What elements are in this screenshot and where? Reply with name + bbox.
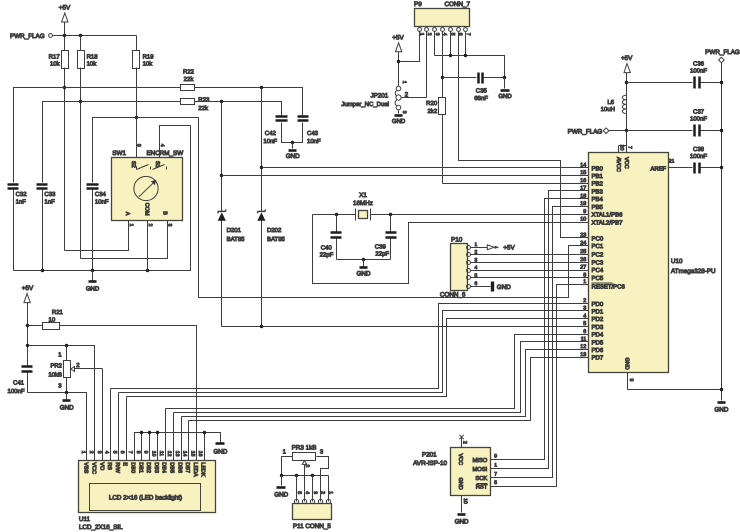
svg-text:CONN_6: CONN_6 xyxy=(440,292,466,299)
node C38 right xyxy=(720,166,723,169)
svg-text:2: 2 xyxy=(304,465,310,468)
svg-text:L6: L6 xyxy=(607,99,614,106)
svg-text:26: 26 xyxy=(580,257,586,263)
svg-text:PC0: PC0 xyxy=(592,235,604,242)
SW1 pin 4 stub to COM/GND net xyxy=(159,126,191,158)
svg-text:PR2: PR2 xyxy=(50,363,62,370)
svg-text:7: 7 xyxy=(127,451,133,454)
node D201 / PB1 row xyxy=(220,174,223,177)
node P11 pin5 gnd xyxy=(295,474,298,477)
MCU AREF pin 21 xyxy=(651,159,693,173)
ground at PR3 xyxy=(274,476,288,499)
svg-text:GND: GND xyxy=(213,448,227,455)
node P9 pin4 / R20 / C35 xyxy=(441,76,444,79)
svg-text:100nF: 100nF xyxy=(690,153,707,160)
capacitor C33 xyxy=(37,185,57,271)
node C36 right / PWR_FLAG xyxy=(720,81,723,84)
svg-text:GND: GND xyxy=(357,271,371,278)
svg-text:A: A xyxy=(124,212,130,216)
svg-text:10kB: 10kB xyxy=(48,371,62,378)
svg-text:23: 23 xyxy=(580,233,586,239)
node C42/C43 join xyxy=(291,141,294,144)
svg-text:6: 6 xyxy=(119,451,125,454)
svg-text:PD4: PD4 xyxy=(592,332,604,339)
svg-text:RST: RST xyxy=(476,484,488,491)
SW1 pin 3 (B) wire to R18 xyxy=(81,221,173,259)
svg-text:C40: C40 xyxy=(321,244,333,251)
svg-text:9: 9 xyxy=(143,451,149,454)
svg-text:10: 10 xyxy=(580,217,586,223)
node pin5 xyxy=(449,54,452,57)
svg-text:PB5: PB5 xyxy=(592,204,604,211)
wire P11 pin3 up xyxy=(312,476,314,502)
resistor R20 2k2 xyxy=(426,98,445,184)
node LCD DB3 gnd xyxy=(156,431,159,434)
svg-text:VO: VO xyxy=(98,462,104,471)
svg-text:PC3: PC3 xyxy=(592,259,604,266)
MCU left pin names xyxy=(592,165,626,361)
PWR_FLAG top-right xyxy=(705,49,740,400)
resistor R23 xyxy=(181,96,210,112)
wire XTAL1 row xyxy=(313,214,356,216)
svg-text:GND: GND xyxy=(455,519,469,526)
svg-text:5: 5 xyxy=(296,491,302,494)
wire R20 to PB2 row xyxy=(443,183,589,185)
svg-text:4: 4 xyxy=(583,313,586,319)
svg-text:AVCC: AVCC xyxy=(615,157,621,172)
node crystal gnd xyxy=(362,258,365,261)
capacitor C42 xyxy=(263,117,292,146)
svg-text:9: 9 xyxy=(494,454,497,460)
MCU VCC/AVCC pins 20/7 xyxy=(615,145,632,172)
svg-text:17: 17 xyxy=(580,186,586,192)
ground below C42/C43 xyxy=(286,143,300,161)
jumper JP201 Jumper_NC_Dual xyxy=(341,81,426,125)
svg-text:X1: X1 xyxy=(359,192,367,199)
PWR_FLAG top-left xyxy=(10,33,52,40)
wire net y=87.3 left + C32 drop xyxy=(14,88,181,183)
svg-text:10: 10 xyxy=(462,498,468,504)
svg-text:XTAL1/PB6: XTAL1/PB6 xyxy=(592,212,624,219)
svg-text:4: 4 xyxy=(304,491,310,494)
svg-text:R/W: R/W xyxy=(114,462,120,474)
capacitor C38 100nF xyxy=(690,146,722,174)
LCD data pins 11-14 stubs xyxy=(165,409,167,461)
wire P9 pin3 down xyxy=(434,32,436,56)
wire ISP MISO to PB4 xyxy=(491,199,589,460)
svg-text:R18: R18 xyxy=(87,54,99,61)
LCD pin numbers xyxy=(80,451,203,457)
svg-text:GND: GND xyxy=(497,284,511,291)
node +5V / C36 row xyxy=(625,81,628,84)
svg-text:VCC: VCC xyxy=(91,462,97,474)
wire P9 pin6 to PC0 xyxy=(459,32,589,238)
svg-text:GND: GND xyxy=(60,405,74,412)
wire P9 pin2 to JP201 xyxy=(426,32,428,98)
power +5V at JP201 xyxy=(392,34,404,86)
svg-text:+5V: +5V xyxy=(392,34,404,41)
svg-text:BAT85: BAT85 xyxy=(227,236,246,243)
svg-text:RS: RS xyxy=(106,462,112,470)
node D202 top xyxy=(260,86,263,89)
svg-text:B: B xyxy=(162,211,168,215)
node C40 top xyxy=(335,213,338,216)
svg-text:P201: P201 xyxy=(422,452,437,459)
svg-text:2: 2 xyxy=(88,451,94,454)
svg-text:DB3: DB3 xyxy=(153,462,159,473)
wire PR2 wiper to LCD VO xyxy=(102,369,104,461)
svg-text:PC5: PC5 xyxy=(592,275,604,282)
svg-text:1: 1 xyxy=(328,491,334,494)
connector P11 CONN_5 xyxy=(293,491,334,530)
svg-text:4: 4 xyxy=(159,144,165,147)
resistor R21 10 xyxy=(28,309,64,330)
svg-text:3: 3 xyxy=(167,224,173,227)
wire C40/C39 gnd row xyxy=(337,259,391,261)
resistor R22 xyxy=(181,69,195,91)
power +5V lower-left xyxy=(22,285,34,366)
MCU left pin numbers xyxy=(580,163,586,358)
diode D202 BAT85 xyxy=(257,88,285,327)
svg-text:PD1: PD1 xyxy=(592,309,604,316)
svg-text:MISO: MISO xyxy=(472,457,487,464)
svg-text:PB0: PB0 xyxy=(592,165,604,172)
svg-text:13: 13 xyxy=(580,352,586,358)
svg-text:C38: C38 xyxy=(693,146,705,153)
svg-text:R23: R23 xyxy=(198,96,210,103)
svg-text:P11 CONN_5: P11 CONN_5 xyxy=(293,523,332,530)
wire PD3 row from diode anodes xyxy=(222,326,589,328)
svg-text:C36: C36 xyxy=(693,61,705,68)
resistor R18 xyxy=(78,36,99,259)
svg-text:C35: C35 xyxy=(476,88,488,95)
svg-text:SW1: SW1 xyxy=(112,150,126,157)
svg-text:SCK: SCK xyxy=(475,475,487,482)
svg-text:PWR_FLAG: PWR_FLAG xyxy=(705,49,740,56)
svg-text:22pF: 22pF xyxy=(320,251,334,258)
svg-text:12: 12 xyxy=(166,451,172,457)
ground at C35 xyxy=(498,78,512,100)
svg-text:100nF: 100nF xyxy=(690,116,707,123)
wire P9 pin1 to +5V xyxy=(399,32,420,62)
svg-text:7: 7 xyxy=(494,471,497,477)
connector P10 CONN_6 xyxy=(440,237,478,299)
svg-text:PC1: PC1 xyxy=(592,243,604,250)
svg-text:16MHz: 16MHz xyxy=(353,200,373,207)
svg-text:10nF: 10nF xyxy=(307,138,321,145)
wire PR3/P11 gnd row xyxy=(282,475,329,477)
wire LCD DB4 to PD4 xyxy=(166,335,589,409)
wire P11 pin5 up xyxy=(296,476,298,502)
svg-text:100nF: 100nF xyxy=(690,68,707,75)
wire +5V to PR2 pin1 and LCD VCC xyxy=(28,346,95,461)
svg-text:2: 2 xyxy=(461,441,467,444)
svg-text:LEDA: LEDA xyxy=(192,462,198,477)
node LCD DB1 gnd xyxy=(140,431,143,434)
svg-text:22k: 22k xyxy=(184,76,195,83)
svg-text:PD3: PD3 xyxy=(592,324,604,331)
svg-text:25: 25 xyxy=(580,249,586,255)
connector P9 CONN_7 xyxy=(414,1,471,36)
svg-text:PB3: PB3 xyxy=(592,188,604,195)
svg-text:1nF: 1nF xyxy=(16,198,27,205)
capacitor C43 xyxy=(293,117,322,146)
ground at P10 pin6 xyxy=(471,282,512,292)
svg-text:PC4: PC4 xyxy=(592,267,604,274)
svg-text:GND: GND xyxy=(714,406,728,413)
svg-text:VSS: VSS xyxy=(83,462,89,473)
svg-text:PB4: PB4 xyxy=(592,196,604,203)
svg-text:13: 13 xyxy=(174,451,180,457)
svg-text:68nF: 68nF xyxy=(474,95,488,102)
svg-text:5: 5 xyxy=(494,480,497,486)
svg-text:8: 8 xyxy=(135,451,141,454)
node +5V / P9 pin1 xyxy=(397,60,400,63)
svg-text:R22: R22 xyxy=(183,69,195,76)
node PR2 pin1 xyxy=(65,344,68,347)
svg-text:AREF: AREF xyxy=(651,166,667,172)
svg-text:15: 15 xyxy=(580,170,586,176)
svg-text:PB1: PB1 xyxy=(592,173,604,180)
capacitor C36 100nF xyxy=(627,61,722,89)
svg-text:100nF: 100nF xyxy=(7,388,24,395)
inductor L6 10uH xyxy=(601,95,627,130)
SW1 pin 6 stub xyxy=(136,118,142,158)
ground below C34 xyxy=(86,271,100,293)
node R17/wire y87 xyxy=(63,86,66,89)
svg-text:PR3 1kB: PR3 1kB xyxy=(292,445,317,452)
svg-text:10k: 10k xyxy=(50,61,61,68)
node PR3 pin1 gnd xyxy=(280,474,283,477)
svg-text:C37: C37 xyxy=(693,109,705,116)
svg-text:1: 1 xyxy=(494,463,497,469)
SW1 pin 2 (COM) wire down xyxy=(147,221,153,271)
svg-text:16: 16 xyxy=(197,451,203,457)
svg-text:PD7: PD7 xyxy=(592,355,604,362)
LCD module U11 xyxy=(79,461,216,532)
svg-text:ATmega328-PU: ATmega328-PU xyxy=(671,268,716,275)
op MCU U10 ATmega328-PU xyxy=(589,153,717,373)
ground at crystal xyxy=(357,260,371,278)
wire P10 pin1 to +5V arrow xyxy=(471,245,516,252)
svg-text:P9: P9 xyxy=(414,1,422,8)
ground below PR2 xyxy=(60,393,74,412)
svg-text:2: 2 xyxy=(320,491,326,494)
capacitor C34 xyxy=(87,185,109,271)
wire P10 pin4 to PC4 xyxy=(471,270,589,272)
svg-text:3: 3 xyxy=(312,491,318,494)
svg-text:XTAL2/PB7: XTAL2/PB7 xyxy=(592,220,624,227)
svg-text:24: 24 xyxy=(580,240,586,246)
wire net y=117.5 + C34 drop xyxy=(93,118,199,183)
svg-text:GND: GND xyxy=(86,285,100,292)
svg-text:PWR_FLAG: PWR_FLAG xyxy=(10,33,45,40)
node D202 anode / PD3 row xyxy=(260,325,263,328)
svg-text:22pF: 22pF xyxy=(375,250,389,257)
svg-text:RESET/PC6: RESET/PC6 xyxy=(592,284,626,291)
power +5V top-right xyxy=(621,55,633,95)
node R18/wire y102 xyxy=(79,100,82,103)
wire ISP MOSI to PB3 xyxy=(491,191,589,469)
svg-text:8: 8 xyxy=(583,272,586,278)
svg-text:GND: GND xyxy=(498,93,512,100)
node gnd row right xyxy=(720,388,723,391)
svg-text:PD0: PD0 xyxy=(592,301,604,308)
wire P10 pin5 to PC5 xyxy=(471,277,589,279)
capacitor C39 22pF xyxy=(375,215,397,260)
svg-text:2: 2 xyxy=(426,33,432,36)
wire encoder switch net to PC1 xyxy=(199,118,589,298)
svg-text:20: 20 xyxy=(618,145,624,151)
wire LCD E to PD2 xyxy=(127,319,589,397)
svg-text:5: 5 xyxy=(475,273,478,279)
svg-text:U11: U11 xyxy=(79,516,91,523)
power +5V top-left xyxy=(59,5,71,36)
svg-text:10uH: 10uH xyxy=(601,106,615,113)
wire LCD R/W to PD1 xyxy=(119,311,589,393)
svg-text:1: 1 xyxy=(583,279,586,285)
svg-text:VCC: VCC xyxy=(623,157,629,169)
svg-text:PD2: PD2 xyxy=(592,316,604,323)
svg-text:7: 7 xyxy=(626,146,632,149)
PWR_FLAG mid-left of L6 xyxy=(568,128,627,135)
svg-text:10: 10 xyxy=(150,451,156,457)
svg-text:U10: U10 xyxy=(671,258,683,265)
capacitor C40 22pF xyxy=(320,215,342,260)
svg-text:COM: COM xyxy=(144,203,150,216)
svg-text:14: 14 xyxy=(580,163,586,169)
rotary encoder SW1 ENCRM_SW xyxy=(112,150,184,220)
LCD pin stubs 4,5,6 (RS,R/W,E) xyxy=(110,389,112,461)
svg-text:BAT85: BAT85 xyxy=(267,236,286,243)
node R19/wire y117 xyxy=(135,116,138,119)
node PR2 pin3 xyxy=(65,391,68,394)
svg-text:DB0: DB0 xyxy=(130,462,136,473)
wire P10 pin2 to PC2 xyxy=(471,254,589,256)
svg-text:C41: C41 xyxy=(13,379,25,386)
wire P9 pin4 down xyxy=(442,32,444,98)
svg-text:DB2: DB2 xyxy=(145,462,151,473)
node SW1 pin2 bottom xyxy=(146,269,149,272)
svg-text:6: 6 xyxy=(583,329,586,335)
node D201 top xyxy=(220,100,223,103)
svg-text:GND: GND xyxy=(286,153,300,160)
svg-text:C33: C33 xyxy=(44,191,56,198)
capacitor C37 100nF xyxy=(627,109,722,137)
wire gnd row pins 3/5/7 xyxy=(435,56,505,78)
node pin7 xyxy=(464,54,467,57)
svg-text:3: 3 xyxy=(401,111,407,114)
svg-text:+5V: +5V xyxy=(22,285,34,292)
svg-text:10nF: 10nF xyxy=(263,138,277,145)
svg-text:S1: S1 xyxy=(154,161,160,168)
svg-text:DB6: DB6 xyxy=(176,462,182,473)
svg-text:E: E xyxy=(122,462,128,466)
node PR2 row tap xyxy=(26,344,29,347)
ground at LCD xyxy=(213,444,227,456)
node C34 bottom xyxy=(91,269,94,272)
svg-text:11: 11 xyxy=(581,337,587,343)
node P11 pin3 gnd xyxy=(311,474,314,477)
wire R22 right to C43 xyxy=(195,88,303,116)
wire R23 right to C42 xyxy=(195,102,282,116)
LCD pin names xyxy=(83,462,206,477)
wire LCD DB6 to PD6 xyxy=(182,350,589,417)
svg-text:Jumper_NC_Dual: Jumper_NC_Dual xyxy=(341,101,389,108)
svg-text:MOSI: MOSI xyxy=(472,466,487,473)
svg-text:D201: D201 xyxy=(227,227,242,234)
svg-text:12: 12 xyxy=(580,344,586,350)
svg-text:11: 11 xyxy=(158,451,164,456)
LCD grounded pins row (DB0-DB3, LEDK) xyxy=(135,433,221,461)
wire common row y=271 xyxy=(14,126,191,271)
svg-text:2: 2 xyxy=(583,298,586,304)
wire PB1 row xyxy=(222,175,589,177)
svg-text:16: 16 xyxy=(580,178,586,184)
svg-text:LCD_2X16_SIL: LCD_2X16_SIL xyxy=(79,524,123,531)
svg-text:JP201: JP201 xyxy=(370,93,388,100)
svg-text:22k: 22k xyxy=(198,105,209,112)
svg-text:15: 15 xyxy=(189,451,195,457)
svg-text:D202: D202 xyxy=(267,227,282,234)
node junction R18 top xyxy=(79,34,82,37)
svg-text:GND: GND xyxy=(274,491,288,498)
svg-text:PWR_FLAG: PWR_FLAG xyxy=(568,128,603,135)
capacitor C41 100nF xyxy=(7,367,32,395)
node LCD LEDK gnd xyxy=(203,431,206,434)
svg-text:C42: C42 xyxy=(265,130,277,137)
svg-text:GND: GND xyxy=(457,478,463,490)
svg-text:9: 9 xyxy=(583,209,586,215)
svg-text:DB5: DB5 xyxy=(169,462,175,473)
svg-text:P10: P10 xyxy=(451,237,463,244)
resistor R17 xyxy=(49,36,69,251)
svg-text:10: 10 xyxy=(49,316,56,323)
svg-text:5: 5 xyxy=(583,321,586,327)
node C35 right / gnd xyxy=(503,76,506,79)
svg-text:DB4: DB4 xyxy=(161,462,167,473)
MCU GND pin 8 xyxy=(623,358,721,390)
svg-text:8: 8 xyxy=(628,379,634,382)
ground bottom-right xyxy=(714,403,728,414)
trimmer PR3 1kB xyxy=(282,445,329,502)
wire ISP SCK to PB5 xyxy=(491,207,589,478)
node junction R17 top xyxy=(63,34,66,37)
node L6 bottom xyxy=(625,129,628,132)
SW1 pin 1 (A) wire to R17 xyxy=(65,221,134,251)
svg-text:PD6: PD6 xyxy=(592,347,604,354)
capacitor C32 xyxy=(8,185,28,271)
svg-text:PD5: PD5 xyxy=(592,339,604,346)
svg-text:PC2: PC2 xyxy=(592,252,604,259)
svg-text:R21: R21 xyxy=(52,309,64,316)
svg-text:3: 3 xyxy=(583,306,586,312)
svg-text:AVR-ISP-10: AVR-ISP-10 xyxy=(413,460,447,467)
svg-text:4: 4 xyxy=(104,451,110,454)
resistor R19 xyxy=(133,36,155,158)
svg-text:+5V: +5V xyxy=(503,245,515,252)
wire +5V rail y=35.4 xyxy=(53,35,137,37)
wire crystal loop to XTAL2 xyxy=(313,215,589,284)
svg-text:+5V: +5V xyxy=(59,5,71,12)
capacitor C35 68nF xyxy=(443,73,505,103)
wire LCD DB5 to PD5 xyxy=(174,342,589,413)
node R21 tap xyxy=(26,324,29,327)
node C33 bottom xyxy=(41,269,44,272)
svg-text:PB2: PB2 xyxy=(592,181,604,188)
wire PB0 row xyxy=(262,167,589,169)
svg-text:+5V: +5V xyxy=(621,55,633,62)
